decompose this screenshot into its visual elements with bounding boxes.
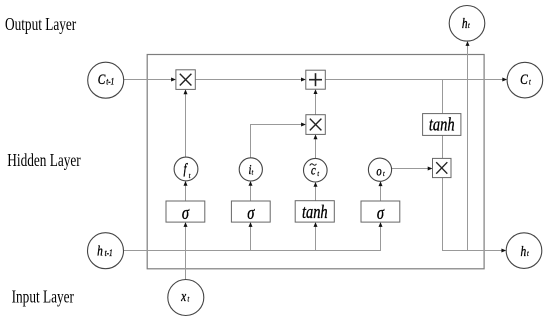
node C(t-1) [88, 62, 124, 98]
tanh block candidate [295, 201, 334, 223]
svg-text:tanh: tanh [302, 201, 328, 222]
tanh block output [423, 114, 461, 136]
node Ct [507, 62, 543, 98]
node h(t-1) [88, 233, 124, 269]
wire bus up to tanh1 [314, 222, 318, 250]
svg-text:h: h [97, 242, 103, 259]
wire sigma1 to ft [184, 181, 188, 201]
svg-text:σ: σ [247, 202, 255, 223]
svg-text:t-1: t-1 [105, 247, 113, 258]
gate ot [368, 158, 391, 181]
svg-text:σ: σ [182, 202, 190, 223]
node ht hidden state [506, 233, 542, 269]
svg-text:o: o [376, 163, 381, 179]
wire tanh1 to ctilde [314, 182, 318, 201]
node xt [168, 280, 204, 316]
sigma block output [361, 201, 400, 223]
wire h(t-1) bus [124, 222, 383, 250]
svg-text:t: t [383, 170, 385, 178]
wire tanh block to output multiply [442, 135, 444, 158]
wire branch down to tanh block [442, 80, 444, 114]
svg-text:x: x [180, 287, 186, 304]
gate ft [174, 157, 198, 181]
svg-text:Input Layer: Input Layer [12, 288, 75, 307]
svg-text:h: h [462, 14, 468, 31]
multiply node output gate [433, 158, 452, 177]
sigma block forget [166, 201, 205, 223]
svg-text:t: t [317, 170, 319, 178]
sigma block input [231, 201, 270, 223]
svg-text:tanh: tanh [429, 114, 455, 135]
wire output multiply down and right to ht [443, 178, 507, 253]
wire forget multiply to plus node [195, 78, 305, 82]
wire it to input multiply [251, 123, 306, 159]
wire ot to output multiply [392, 167, 433, 171]
svg-text:C: C [98, 70, 106, 87]
svg-text:t: t [252, 169, 254, 177]
svg-text:σ: σ [377, 202, 385, 223]
node ht output layer [449, 6, 485, 42]
svg-text:Hidden Layer: Hidden Layer [7, 152, 81, 171]
svg-text:h: h [521, 242, 527, 259]
wire sigma2 to it [249, 181, 253, 201]
wire up to ht output layer [466, 41, 470, 250]
wire xt up to sigma1 [184, 222, 188, 279]
plus node [306, 70, 326, 89]
wire ctilde to input multiply [314, 134, 318, 158]
wire sigma4 to ot [379, 181, 383, 201]
svg-text:C: C [520, 70, 528, 87]
svg-text:Output Layer: Output Layer [5, 15, 77, 34]
multiply node input gate [306, 115, 325, 135]
LSTM cell boundary box [147, 55, 484, 269]
gate ctilde [304, 158, 328, 182]
wire plus node to Ct [325, 78, 507, 82]
gate it [239, 158, 262, 181]
svg-text:t-1: t-1 [106, 75, 114, 86]
multiply node forget gate [176, 70, 195, 90]
wire C(t-1) to forget multiply [124, 78, 176, 82]
wire input multiply to plus node [314, 89, 318, 115]
wire ft to forget multiply [184, 89, 188, 157]
wire bus up to sigma2 [249, 222, 253, 250]
svg-text:t: t [189, 172, 191, 180]
